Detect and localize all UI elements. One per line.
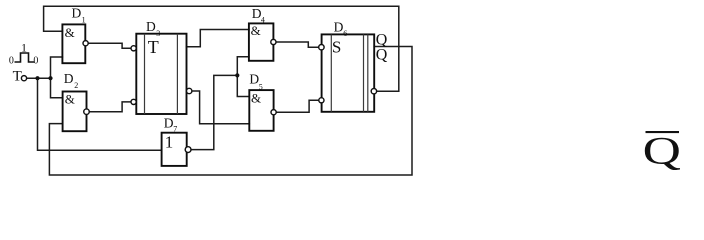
svg-text:&: & (65, 25, 75, 40)
svg-text:D: D (72, 5, 82, 20)
svg-text:D: D (334, 20, 344, 35)
svg-text:&: & (251, 23, 261, 38)
svg-text:4: 4 (261, 16, 265, 25)
svg-text:T: T (148, 37, 159, 57)
svg-text:S: S (332, 37, 341, 56)
svg-text:Q: Q (643, 129, 681, 173)
svg-text:0: 0 (33, 56, 38, 67)
svg-text:6: 6 (343, 29, 347, 38)
svg-text:T: T (13, 69, 22, 85)
svg-text:1: 1 (21, 40, 27, 54)
svg-text:7: 7 (173, 125, 177, 134)
svg-text:2: 2 (74, 81, 78, 90)
svg-text:&: & (65, 92, 75, 107)
svg-text:Q: Q (376, 47, 388, 64)
svg-text:D: D (146, 19, 156, 34)
svg-text:&: & (251, 91, 261, 106)
svg-text:1: 1 (165, 132, 174, 151)
svg-text:1: 1 (82, 16, 86, 25)
svg-text:D: D (64, 71, 74, 86)
svg-text:0: 0 (9, 56, 14, 67)
